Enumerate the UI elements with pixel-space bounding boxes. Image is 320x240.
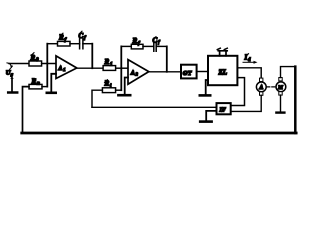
wire Rf1 to Cf1 bbox=[70, 43, 80, 45]
svg-text:C: C bbox=[79, 32, 84, 40]
svg-text:A: A bbox=[258, 85, 263, 91]
wire R1 to opamp A2 bbox=[116, 67, 128, 69]
capacitor Cf1 bbox=[80, 39, 83, 49]
block IF bbox=[217, 103, 231, 114]
svg-text:A: A bbox=[57, 66, 62, 72]
wire bottom rail bbox=[22, 132, 297, 135]
wire R3 left down to feedback line bbox=[92, 90, 102, 107]
svg-text:ZL: ZL bbox=[218, 69, 228, 77]
wire ammeter bottom to IF bbox=[231, 95, 262, 111]
wire feedback node vertical A2 bbox=[120, 46, 122, 90]
wire IF left to feedback line bbox=[92, 106, 217, 108]
op-amp A1 bbox=[56, 56, 77, 79]
wire Rf2 to Cf2 bbox=[143, 45, 154, 47]
block ZL bbox=[208, 56, 237, 85]
op-amp A2 bbox=[128, 60, 149, 85]
ground motor bottom bbox=[280, 95, 282, 112]
wire ZL output to ammeter bbox=[237, 68, 261, 78]
wire Cf1 to right vertical bbox=[83, 43, 92, 45]
wire R2 left down to rail bbox=[23, 87, 30, 133]
ammeter circle A bbox=[260, 78, 263, 81]
resistor Rf2 bbox=[131, 44, 143, 49]
motor circle M bbox=[279, 78, 282, 81]
resistor R3 lower A2 bbox=[102, 88, 115, 93]
block GT bbox=[181, 65, 197, 79]
resistor R2 lower A1 bbox=[29, 84, 42, 89]
resistor Rf1 bbox=[58, 41, 71, 46]
wire A1 output to R1 bbox=[77, 67, 104, 69]
ground IF left-bottom bbox=[206, 111, 216, 121]
wire feedback right vertical A1 bbox=[91, 44, 93, 68]
svg-text:R: R bbox=[58, 34, 64, 42]
wire feedback right vertical A2 bbox=[166, 46, 168, 71]
wire A2 output to GT bbox=[149, 71, 181, 73]
svg-text:1: 1 bbox=[63, 67, 65, 72]
wire R2 right to node bbox=[42, 86, 47, 88]
wire motor top to right rail bbox=[281, 67, 296, 78]
svg-text:R: R bbox=[104, 80, 110, 88]
wire feedback node vertical A1 bbox=[46, 44, 48, 87]
wire R3 right to node bbox=[116, 89, 122, 91]
ground opamp A2 plus input bbox=[125, 78, 128, 95]
wire feedback top left A2 bbox=[121, 45, 131, 47]
svg-text:1: 1 bbox=[110, 62, 113, 67]
wire input to R0 bbox=[9, 63, 29, 65]
arrow Id bbox=[243, 61, 255, 63]
capacitor Cf2 bbox=[154, 43, 156, 51]
wire GT to ZL bbox=[197, 71, 208, 73]
ground opamp A1 plus input bbox=[51, 74, 56, 92]
node input terminal arrow bbox=[7, 63, 11, 66]
svg-text:M: M bbox=[277, 85, 283, 91]
svg-text:A: A bbox=[130, 70, 135, 76]
svg-text:GT: GT bbox=[183, 70, 192, 77]
svg-text:IF: IF bbox=[219, 108, 226, 114]
coupling dashes bbox=[267, 86, 275, 88]
svg-text:I: I bbox=[244, 54, 248, 62]
ground Ug bbox=[11, 79, 13, 92]
svg-text:R: R bbox=[31, 77, 37, 85]
wire feedback top left bbox=[47, 43, 57, 45]
wire Cf2 to right vertical A2 bbox=[156, 45, 167, 47]
wire right rail bbox=[294, 67, 297, 133]
AC input symbol on ZL top bbox=[218, 51, 227, 56]
svg-text:R: R bbox=[30, 54, 36, 62]
wire R0 to opamp bbox=[42, 63, 56, 65]
label accent marks bbox=[31, 31, 249, 82]
resistor R1 bbox=[103, 66, 116, 71]
svg-text:n: n bbox=[37, 82, 40, 87]
svg-text:R: R bbox=[104, 58, 110, 66]
svg-text:R: R bbox=[132, 37, 138, 45]
wire ZL bottom to IF right-top bbox=[231, 78, 245, 106]
svg-text:C: C bbox=[153, 37, 158, 45]
resistor R0 bbox=[29, 61, 42, 66]
ground ZL left-bottom bbox=[206, 80, 208, 94]
